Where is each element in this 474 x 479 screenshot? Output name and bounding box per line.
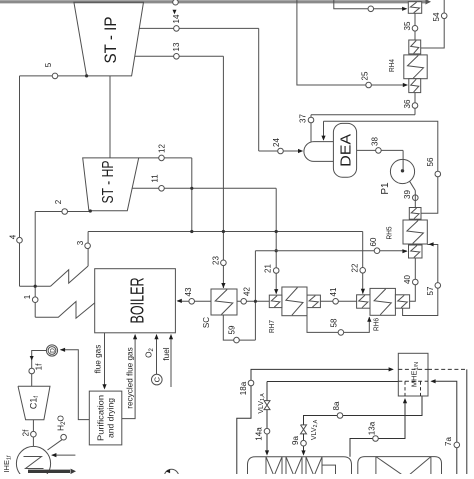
node 38 [370,137,381,154]
wire purification to drive D [60,348,89,420]
svg-text:RH4: RH4 [387,59,396,72]
node 40 [403,275,418,285]
wire flue gas line [94,333,107,390]
svg-text:flue gas: flue gas [94,345,103,374]
wire stream 25 [297,0,408,87]
heat-exchanger RH4 [387,40,427,93]
wire feedwater into boiler coil (lower sawtooth) [35,302,94,319]
valve VLV1A [258,393,270,414]
node 41 [329,287,339,304]
svg-text:D: D [50,348,57,353]
wire stream 13 (ST-IP tap to SC) [135,56,226,288]
svg-text:VLV1,A: VLV1,A [258,393,266,414]
heat-exchanger RH6 [357,288,410,331]
svg-text:recycled flue gas: recycled flue gas [126,347,135,408]
svg-text:DEA: DEA [337,134,354,167]
node 54 [432,12,447,21]
membrane vessel 1 [248,457,352,476]
svg-text:43: 43 [184,287,193,296]
svg-text:4: 4 [8,234,17,239]
svg-text:14a: 14a [254,427,263,441]
svg-text:13a: 13a [367,421,376,435]
svg-text:24: 24 [272,138,281,147]
wire stream 37 vent [310,115,312,142]
wire D to compressor C1f [30,351,47,387]
node 34 [368,6,374,12]
node 1 [23,294,38,302]
membrane unit MHE1/N [398,353,428,396]
node 8a [332,401,343,418]
svg-text:C1f: C1f [29,396,41,410]
node 24 [272,138,283,154]
node 3 [76,240,91,248]
svg-text:38: 38 [370,137,379,146]
node 23 [211,256,226,266]
wire stream 36 from RH4 [414,93,416,115]
svg-text:40: 40 [403,275,412,284]
wire stream 56 [321,121,437,213]
vessel feedwater tank (capsule) [304,142,334,162]
wire 9a into membrane vessel [301,434,305,456]
svg-text:56: 56 [426,157,435,166]
wire stream 40 [410,258,416,301]
node 1f [29,363,43,374]
wire stream 2 (ST-HP exhaust) [35,209,92,317]
node 5 [44,62,58,78]
node 22 [350,263,365,273]
wire stream 7a to MHE [430,379,456,476]
svg-text:39: 39 [403,190,412,199]
node 14a [254,427,269,441]
svg-text:14: 14 [172,14,181,23]
svg-text:P1: P1 [380,182,391,195]
node 58 [329,318,343,335]
node 2 [54,199,68,214]
wire main steam line (thick, cut at top edge) [0,0,431,5]
wire stream 8a from MHE [304,396,423,425]
wire pump P1 outlet to RH5 [409,180,415,207]
node 43 [184,287,195,304]
wire header line y=231 [88,231,363,233]
node 7a [444,437,460,448]
node 13a [367,421,378,441]
svg-text:VLV2,A: VLV2,A [311,419,319,440]
svg-text:8a: 8a [332,401,341,410]
wire O2 line [154,334,158,374]
node 56 [426,157,441,177]
deaerator DEA [333,123,356,177]
wire 4-line join [20,285,51,288]
svg-text:13: 13 [172,42,181,51]
boiler BOILER [95,269,176,333]
node 12 [157,144,166,161]
node 21 [263,264,279,274]
svg-text:SC: SC [202,317,211,328]
node 35 [403,21,418,31]
wire fuel line [162,334,173,387]
node 39 [403,190,418,201]
node 57 [426,283,441,296]
svg-text:3: 3 [76,240,85,245]
svg-text:58: 58 [329,318,338,327]
node 59 [227,325,239,343]
wire boiler coil upper sawtooth to stream 3 [51,232,89,287]
wire stream 12 (ST-HP top tap) [139,158,194,233]
svg-text:22: 22 [350,263,359,272]
svg-text:35: 35 [403,21,412,30]
membrane vessel 1 small box [322,465,336,476]
wire stream 58 [307,316,371,333]
svg-text:5: 5 [44,62,53,67]
wire recycled flue gas line [122,334,137,419]
svg-text:54: 54 [432,12,441,21]
membrane vessel 2 internals [376,457,431,476]
arrow 21 into RH7 [274,289,278,294]
svg-text:7a: 7a [444,437,453,446]
node H2O [57,415,68,440]
valve VLV2A [301,419,320,440]
wire inlet into IHE [51,453,75,457]
heat-exchanger SC [202,289,237,328]
wire stream 38 (deaerator to pump) [357,149,404,151]
svg-text:fuel: fuel [162,347,171,360]
svg-text:36: 36 [403,99,412,108]
wire stream 18a to MHE [237,367,394,476]
wire MHE permeate out (dashed then down) [428,369,467,476]
node 9a [291,436,306,446]
node 14 [172,14,181,31]
svg-text:1: 1 [23,294,32,299]
wire stream 22 [361,232,365,295]
wire stream 59 [223,315,255,340]
svg-text:RH5: RH5 [385,227,394,240]
svg-text:41: 41 [329,287,338,296]
wire stream 60 branch [255,249,407,340]
turbine ST-HP [83,158,139,211]
node 42 [241,287,252,305]
svg-text:37: 37 [298,114,307,123]
node 2f [21,429,36,437]
wire stream 42 [237,300,269,303]
svg-text:C: C [153,376,162,382]
wire stream 11 (ST-HP side tap) [132,187,278,294]
svg-text:1f: 1f [34,363,43,370]
wire stream 13a to MHE [350,398,407,457]
unit Purification and drying [89,391,122,445]
wire C1f to IHE [32,420,34,447]
svg-text:60: 60 [369,237,378,246]
svg-text:57: 57 [426,286,435,295]
svg-text:RH6: RH6 [372,318,381,331]
wire stream 57 [403,242,438,315]
compressor C1f [18,386,50,420]
heat-exchanger RH3 (cut at top) [408,2,421,14]
label O2 [145,347,156,357]
heat-exchanger RH7 [267,287,320,333]
node 37 [298,114,313,123]
svg-text:18a: 18a [239,381,248,395]
svg-text:2: 2 [54,199,63,204]
svg-text:ST - IP: ST - IP [102,17,120,64]
svg-text:42: 42 [242,287,251,296]
node 18a [239,380,254,395]
svg-text:ST - HP: ST - HP [100,161,117,204]
wire stream 41 [320,300,356,302]
wire H2O outlet [48,440,62,450]
membrane vessel 1 internals [266,457,322,476]
svg-text:11: 11 [150,174,159,183]
node 13 [172,42,181,59]
svg-text:25: 25 [360,71,369,80]
node 36 [403,99,418,108]
wire stream 14 (ST-IP tap to deaerator) [139,28,303,153]
node 11 [150,174,164,191]
svg-text:2f: 2f [21,429,30,436]
node 60 [369,237,380,253]
wire stream 36 to deaerator [311,114,415,116]
svg-text:Purification: Purification [95,395,105,441]
wire stream 34 line [334,0,408,11]
node on main steam line [173,0,179,5]
wire ST-IP to ST-HP [109,76,111,158]
membrane vessel 2 [358,457,442,476]
wire stream 5 (ST-IP exhaust to left) [20,74,89,286]
svg-text:RH7: RH7 [267,320,276,333]
wire stream 35 [414,13,416,40]
svg-text:59: 59 [227,325,236,334]
source C (oxygen) [152,374,163,385]
svg-text:12: 12 [157,144,166,153]
heat-exchanger RH5 [385,208,428,259]
node 25 [360,71,371,88]
pump at bottom edge (cut) [164,469,178,479]
wire stream 43 into boiler [177,299,211,303]
svg-text:23: 23 [211,256,220,265]
wire stream 14a with valve VLV1A [265,382,398,456]
wire stream 54 [421,0,445,48]
svg-text:21: 21 [263,264,272,273]
pump P1 [380,150,415,194]
svg-text:9a: 9a [291,436,300,445]
turbine ST-IP [74,2,144,76]
node 4 [8,234,22,243]
heat-exchanger IHE1f [2,446,50,479]
svg-text:BOILER: BOILER [127,278,148,324]
svg-text:and drying: and drying [106,398,116,438]
arrow mark below main steam line [173,10,177,15]
drive D [46,345,57,356]
wire thick CO2 product line [28,469,76,475]
